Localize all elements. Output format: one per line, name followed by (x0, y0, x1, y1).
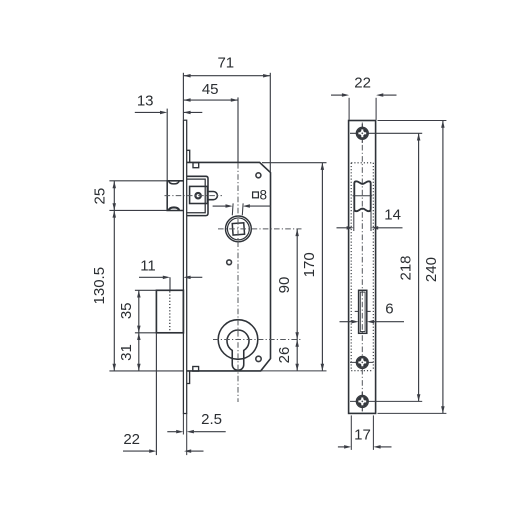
latch pivot pin (195, 193, 200, 198)
euro profile cylinder hole (227, 330, 249, 370)
svg-text:218: 218 (397, 255, 414, 280)
dimension 240 faceplate length (378, 121, 447, 414)
svg-text:14: 14 (384, 207, 401, 224)
svg-text:8: 8 (259, 187, 267, 202)
svg-text:17: 17 (354, 426, 371, 443)
svg-text:22: 22 (123, 431, 140, 448)
latch bolt tail block (190, 186, 208, 203)
svg-text:240: 240 (423, 257, 440, 282)
svg-text:130.5: 130.5 (91, 267, 108, 305)
cylinder horizontal centerline (213, 339, 302, 341)
svg-text:45: 45 (202, 81, 219, 98)
svg-text:25: 25 (92, 188, 109, 205)
svg-text:22: 22 (354, 74, 371, 91)
dimension 17 case width (338, 415, 392, 450)
dimension 130.5 (91, 210, 183, 371)
dimension 22 faceplate width (331, 74, 397, 120)
euro cylinder boss circle (218, 320, 258, 360)
lock case outline (187, 162, 271, 371)
faceplate front view (349, 121, 376, 414)
latch adjusting nub (207, 192, 217, 200)
roller latch (353, 181, 373, 211)
screw post top (193, 163, 199, 168)
fixing screw bottom (350, 392, 422, 411)
dimension 11 deadbolt retracted (139, 258, 202, 290)
follower horizontal centerline (218, 228, 302, 230)
svg-text:71: 71 (217, 55, 234, 72)
dimension 35 deadbolt height (118, 290, 156, 333)
dimension 25 latch height (92, 181, 167, 211)
fixing screw middle (350, 356, 374, 368)
dimension 22 deadbolt throw (123, 333, 204, 455)
deadbolt slot (355, 290, 371, 333)
screw hole upper right (256, 173, 261, 178)
svg-text:170: 170 (301, 252, 318, 277)
latch guide cage outer (187, 176, 208, 215)
dimension 170 case height (261, 163, 327, 371)
hidden case edges (dotted) (351, 163, 373, 371)
latch bolt head (projecting 13mm) (167, 181, 183, 211)
follower square spindle hub (226, 216, 252, 242)
svg-text:13: 13 (137, 92, 154, 109)
svg-text:6: 6 (385, 301, 393, 318)
dimension 90 centres (276, 229, 299, 340)
dimension 26 (276, 340, 299, 371)
dimension 2.5 faceplate thickness (167, 411, 225, 455)
case mounting step top (187, 150, 190, 162)
dimension 6 slot width (340, 301, 405, 324)
svg-text:31: 31 (118, 344, 135, 361)
faceplate centerline (361, 123, 363, 412)
case mounting tab bottom (187, 371, 190, 384)
dimension 14 roller width (337, 207, 403, 231)
svg-text:35: 35 (118, 302, 135, 319)
deadbolt (thrown, 22mm) (156, 290, 183, 333)
dimension 71 overall depth (183, 55, 270, 173)
latch centerline (165, 195, 223, 197)
screw post bottom (193, 367, 199, 372)
svg-text:26: 26 (276, 347, 293, 364)
main vertical centerline (237, 163, 239, 402)
screw hole lower right (256, 356, 261, 361)
dimension square 8 spindle (213, 187, 271, 215)
latch guide cage inner (187, 179, 206, 213)
dimension 31 (118, 333, 141, 371)
screw hole center (227, 260, 232, 265)
fixing screw top (350, 124, 422, 143)
dimension 45 backset (183, 81, 238, 162)
dimension 218 screw centres (397, 133, 420, 401)
svg-text:90: 90 (276, 277, 293, 294)
svg-text:2.5: 2.5 (201, 411, 222, 428)
svg-text:11: 11 (140, 258, 156, 275)
faceplate (side view, 2.5mm thick) (183, 120, 186, 413)
dimension 13 latch projection (135, 92, 203, 180)
